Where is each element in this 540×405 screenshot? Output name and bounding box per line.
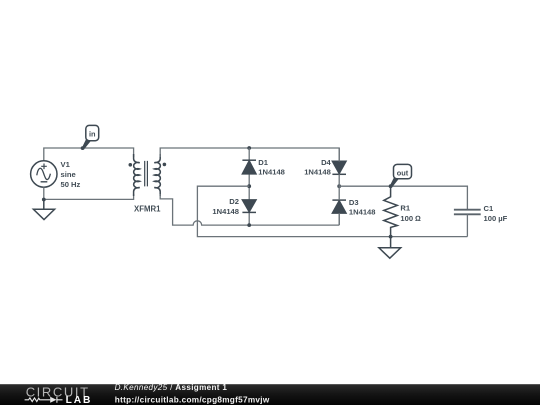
junction dot R1 bottom [389,235,393,239]
footer bar [0,384,540,405]
svg-text:D.Kennedy25 / Assigment 1: D.Kennedy25 / Assigment 1 [115,383,228,392]
transformer XFMR1 [134,154,161,196]
logo diode triangle [50,397,56,403]
node in junction dot [81,146,85,150]
wire: out rail to C1 [339,186,467,209]
transformer polarity dots [129,163,133,167]
svg-text:1N4148: 1N4148 [212,207,239,216]
flag out box [394,164,412,178]
node out junction dot [389,184,393,188]
svg-text:100 Ω: 100 Ω [400,214,421,223]
svg-text:http://circuitlab.com/cpg8mgf5: http://circuitlab.com/cpg8mgf57mvjw [115,395,270,404]
svg-text:LAB: LAB [66,395,93,405]
svg-text:XFMR1: XFMR1 [134,205,161,214]
diode D1 [242,160,256,174]
svg-text:1N4148: 1N4148 [304,168,331,177]
svg-text:sine: sine [61,170,76,179]
resistor R1 [384,186,398,236]
ground (R1) [379,237,401,259]
svg-text:1N4148: 1N4148 [258,168,285,177]
svg-text:100 µF: 100 µF [484,214,508,223]
junction dot D2 bottom [247,223,251,227]
diode D2 [242,200,256,213]
svg-text:D4: D4 [321,158,331,167]
flag in tail [82,140,91,150]
svg-text:D3: D3 [349,198,359,207]
wire: V1 bottom to primary bottom [44,187,134,199]
flag out tail [390,178,399,188]
wire: top-left rail from V1 top to primary top [44,148,134,161]
capacitor C1 [454,210,481,215]
junction dot out node left [337,184,341,188]
junction dot D1 top [247,146,251,150]
wire: D1-D2 branch [248,148,250,225]
svg-text:out: out [397,168,409,177]
wire: secondary bottom to AC2 rail [160,194,339,225]
svg-text:D2: D2 [229,197,239,206]
flag in box [86,125,99,140]
ground (V1) [33,200,54,220]
diode D3 [332,200,346,213]
svg-text:1N4148: 1N4148 [349,208,376,217]
svg-text:in: in [89,129,96,138]
junction dot V1 bottom [42,198,46,202]
svg-text:50 Hz: 50 Hz [61,180,81,189]
voltage source V1 [31,161,57,187]
svg-text:D1: D1 [258,158,268,167]
svg-text:V1: V1 [61,160,71,169]
logo squiggle resistor and diode [25,397,63,403]
wire: AC2 rail corner into D3 bottom [338,214,340,226]
svg-text:R1: R1 [400,204,410,213]
junction dot D1/D2 ground node [247,184,251,188]
wire: secondary top rail to D4 branch [160,148,339,161]
diode D4 [332,161,346,174]
wire: D3-D4 branch [338,148,340,225]
wire: C1 bottom lead [466,214,468,236]
wire: mid-left rail to ground rail [197,186,467,236]
svg-text:C1: C1 [484,204,494,213]
